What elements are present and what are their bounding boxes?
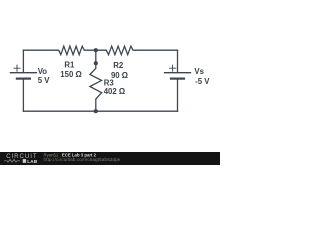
svg-text:-5 V: -5 V	[195, 77, 210, 86]
logo LAB text	[23, 159, 26, 163]
svg-text:402 Ω: 402 Ω	[104, 87, 125, 96]
plus sign of Vs	[170, 65, 176, 71]
svg-text:150 Ω: 150 Ω	[60, 70, 81, 79]
junction node dot at top rail / R3	[94, 48, 98, 52]
wire left branch top lead	[22, 50, 24, 72]
wire top rail with resistor R1 and resistor R2 zigzags	[23, 46, 177, 55]
plus sign of Vo	[14, 65, 20, 71]
resistor R3 vertical branch with zigzag	[90, 50, 102, 111]
svg-text:http://circuitlab.com/c6agt5ab: http://circuitlab.com/c6agt5ab52dpe	[44, 157, 121, 162]
wire right branch top lead	[177, 50, 179, 72]
junction node dot at bottom rail / R3	[94, 109, 98, 113]
svg-text:5 V: 5 V	[38, 76, 51, 85]
wire right branch bottom lead	[177, 79, 179, 111]
logo resistor squiggle	[4, 159, 20, 162]
CircuitLab logo wordmark	[4, 153, 121, 164]
wire bottom rail	[23, 110, 177, 112]
svg-text:Vo: Vo	[38, 67, 48, 76]
svg-text:R2: R2	[113, 61, 124, 70]
svg-text:R3: R3	[104, 78, 115, 87]
wire left branch bottom lead	[22, 79, 24, 111]
svg-text:Vs: Vs	[194, 67, 204, 76]
footer black bar	[0, 152, 220, 165]
svg-text:R1: R1	[64, 60, 75, 69]
voltage source V1 (Vo) plates	[10, 72, 36, 74]
voltage source V2 (Vs) plates	[165, 72, 191, 74]
svg-text:LAB: LAB	[27, 159, 38, 164]
wire joint dot on R3 branch	[94, 61, 98, 65]
